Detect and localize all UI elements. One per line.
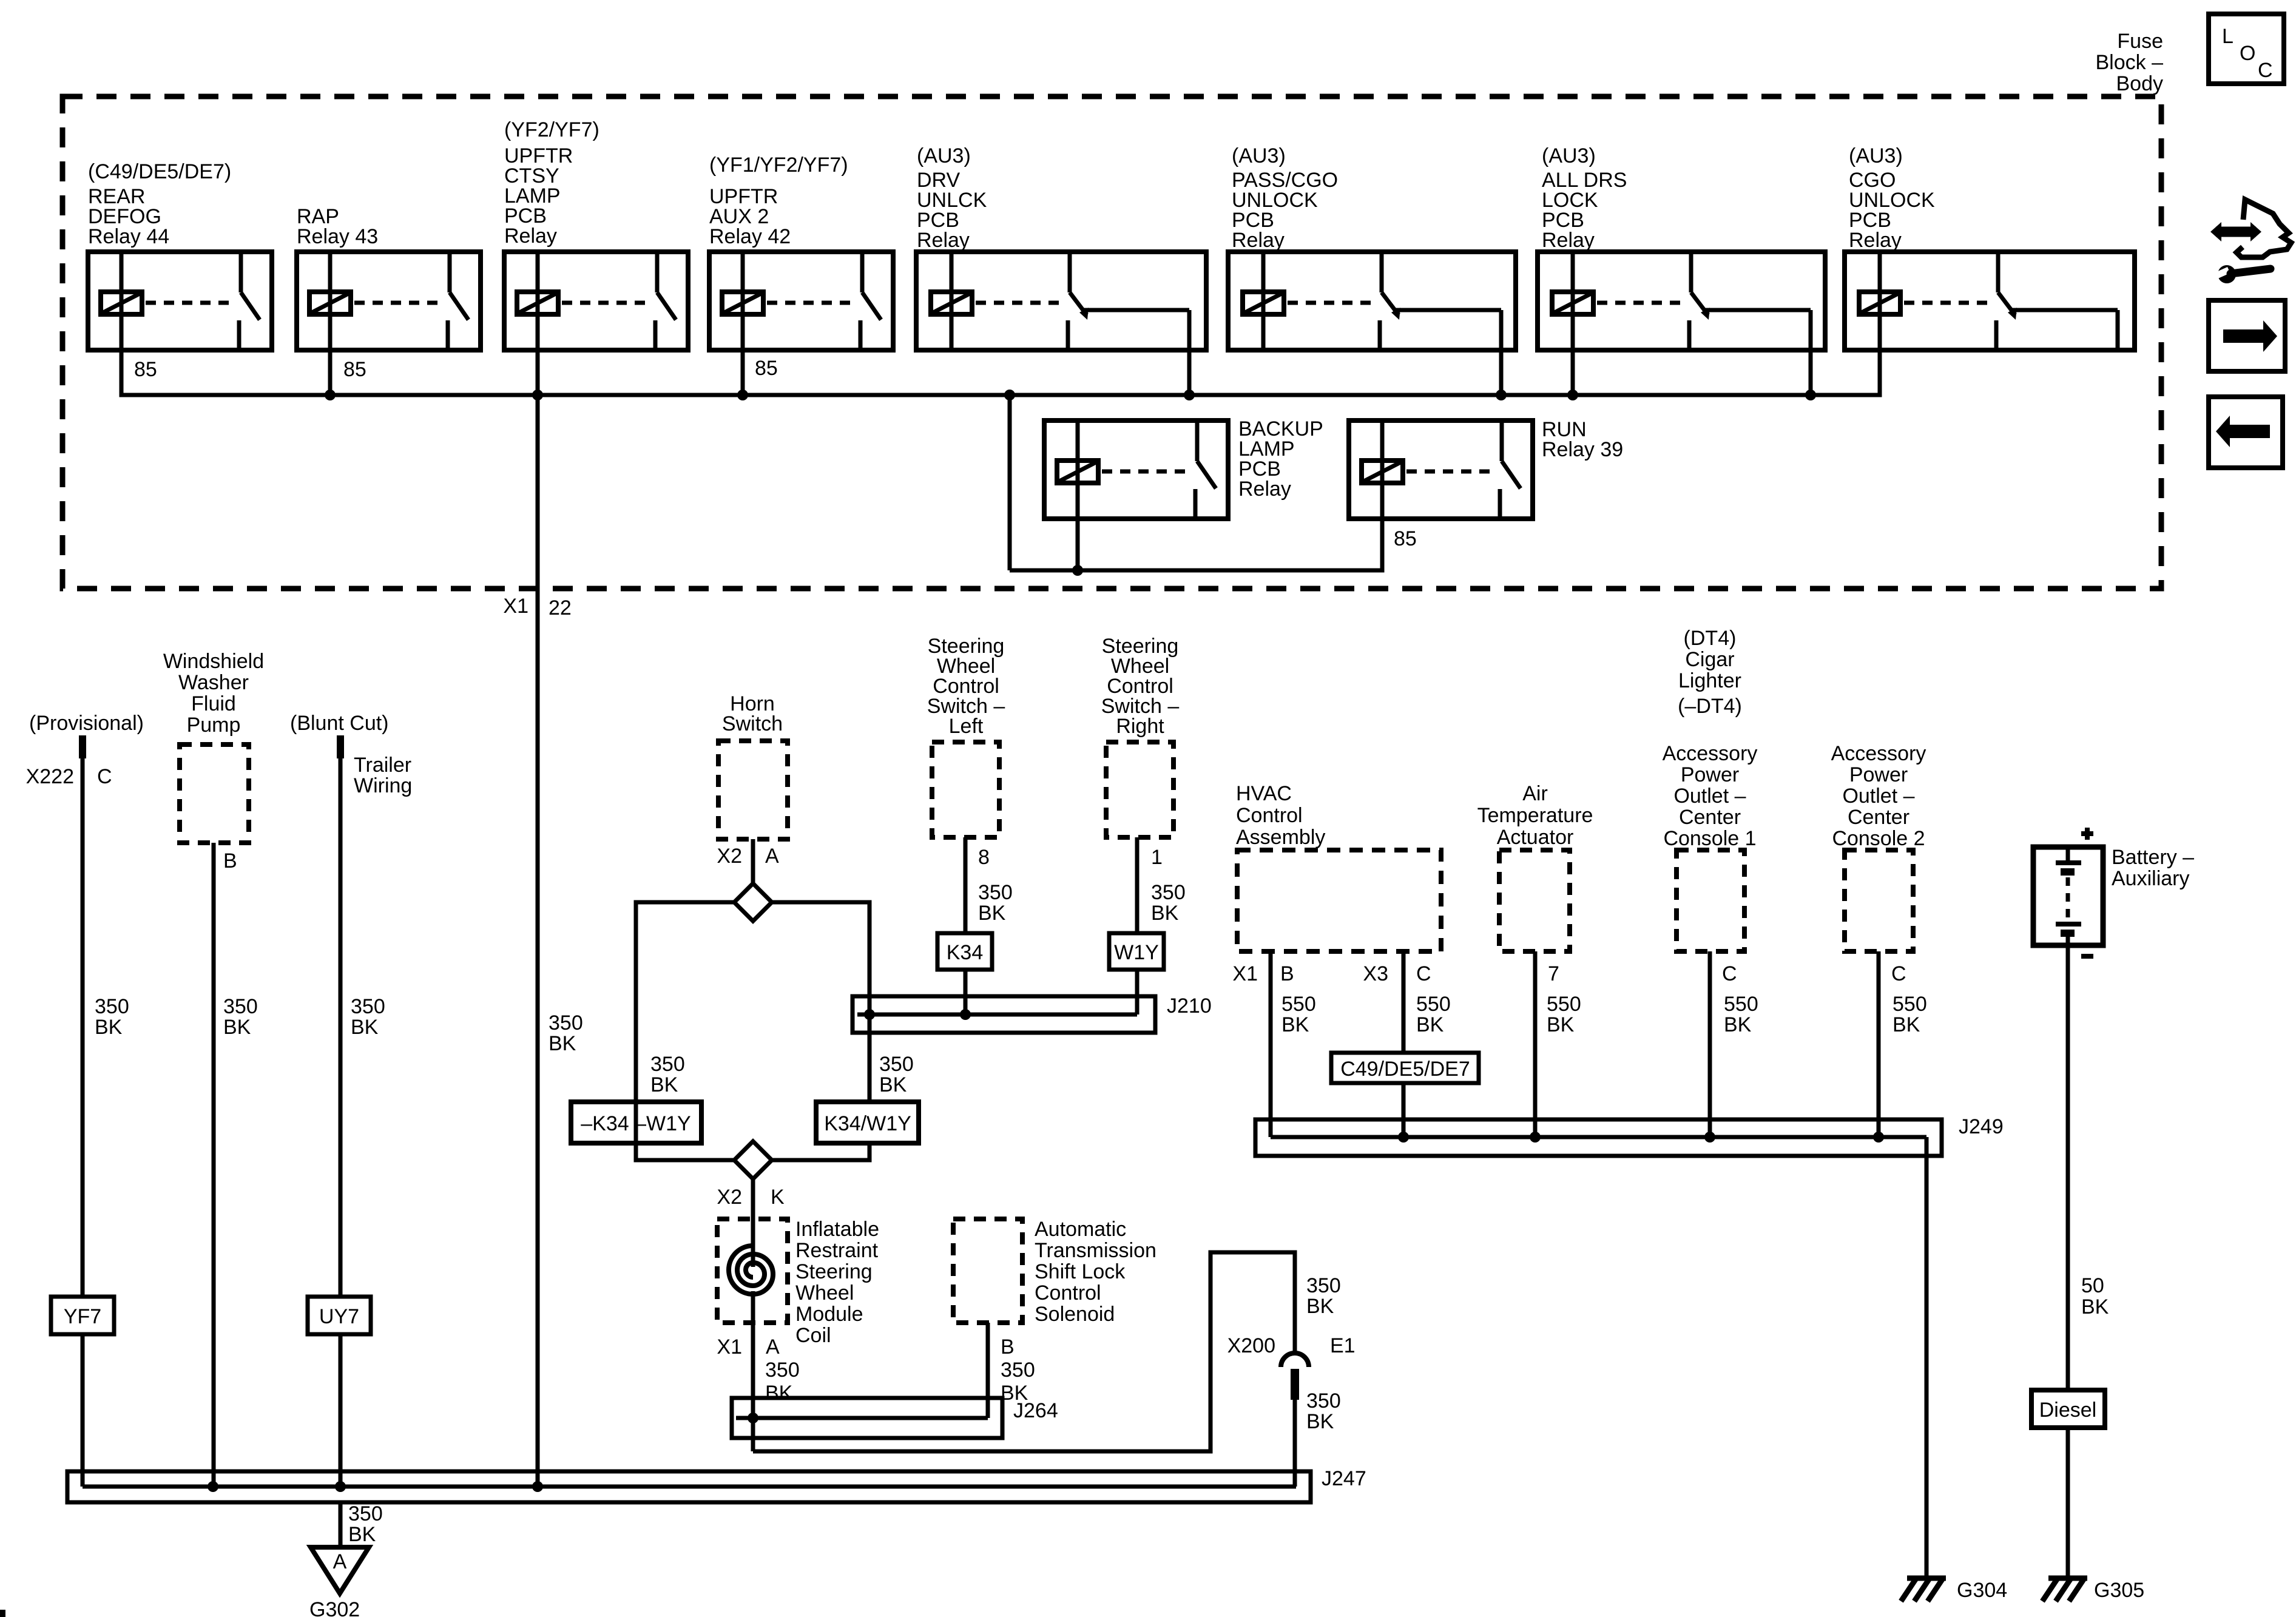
svg-text:350: 350 xyxy=(223,995,258,1018)
svg-text:Module: Module xyxy=(795,1303,863,1326)
svg-text:Accessory: Accessory xyxy=(1831,742,1926,765)
svg-text:–K34 –W1Y: –K34 –W1Y xyxy=(581,1112,690,1135)
svg-text:Washer: Washer xyxy=(178,671,249,694)
inflatable restraint module box (dashed) xyxy=(717,1219,788,1323)
wire actuator pin 7 to J249 xyxy=(1533,951,1538,1137)
svg-text:BK: BK xyxy=(1281,1013,1309,1036)
svg-text:Coil: Coil xyxy=(795,1324,831,1347)
wire label 350 BK (solenoid wire) xyxy=(1001,1359,1035,1405)
svg-text:Console 2: Console 2 xyxy=(1832,827,1925,850)
svg-text:350: 350 xyxy=(978,881,1013,904)
svg-text:Fluid: Fluid xyxy=(191,692,236,715)
svg-text:Power: Power xyxy=(1681,763,1739,786)
svg-text:Solenoid: Solenoid xyxy=(1035,1303,1115,1326)
svg-text:(C49/DE5/DE7): (C49/DE5/DE7) xyxy=(88,160,231,183)
svg-text:Windshield: Windshield xyxy=(163,650,264,673)
connector -K34 -W1Y box xyxy=(571,1102,701,1143)
svg-text:Right: Right xyxy=(1116,715,1164,738)
label air temperature actuator xyxy=(1477,782,1593,849)
svg-text:A: A xyxy=(333,1550,347,1573)
provisional wire stub xyxy=(79,735,86,758)
wire switch-right pin 1 to W1Y xyxy=(1135,837,1140,1014)
svg-text:C: C xyxy=(2258,59,2273,82)
svg-text:BK: BK xyxy=(879,1073,907,1096)
svg-text:Relay: Relay xyxy=(1238,478,1291,501)
svg-text:BK: BK xyxy=(1306,1410,1334,1433)
windshield washer fluid pump box (dashed) xyxy=(180,744,249,843)
svg-text:Relay 44: Relay 44 xyxy=(88,225,169,248)
svg-text:BK: BK xyxy=(1151,902,1179,925)
svg-text:550: 550 xyxy=(1893,993,1927,1016)
steering wheel switch left box (dashed) xyxy=(932,742,999,837)
wire backup/run 85 bus xyxy=(1010,518,1382,570)
power outlet console 2 box (dashed) xyxy=(1845,850,1913,951)
svg-text:G304: G304 xyxy=(1957,1579,2007,1602)
connector X2 pin A labels (horn) xyxy=(717,845,779,868)
svg-text:Accessory: Accessory xyxy=(1663,742,1758,765)
svg-text:Relay 42: Relay 42 xyxy=(709,225,791,248)
svg-text:G302: G302 xyxy=(309,1598,360,1617)
wire diamond left branch xyxy=(636,902,734,1160)
svg-text:BK: BK xyxy=(549,1032,576,1055)
svg-text:Relay: Relay xyxy=(1232,229,1285,252)
svg-text:Lighter: Lighter xyxy=(1678,669,1741,692)
pin C label outlet 1 xyxy=(1722,962,1737,985)
wire label 550 BK (actuator) xyxy=(1547,993,1581,1036)
relay PASS/CGO UNLOCK PCB (AU3) xyxy=(1228,144,1516,350)
pin 7 label xyxy=(1548,962,1559,985)
svg-text:85: 85 xyxy=(755,357,778,380)
label provisional xyxy=(29,712,144,735)
wire label 350 BK (X222 wire) xyxy=(95,995,129,1039)
prev-page arrow box xyxy=(2209,397,2283,468)
svg-text:7: 7 xyxy=(1548,962,1559,985)
relay ALL DRS LOCK PCB (AU3) xyxy=(1538,144,1825,350)
power outlet console 1 box (dashed) xyxy=(1676,850,1744,951)
svg-text:X222: X222 xyxy=(26,765,74,788)
svg-text:Outlet –: Outlet – xyxy=(1842,785,1914,808)
battery auxiliary symbol xyxy=(2033,847,2103,945)
svg-text:X2: X2 xyxy=(717,1186,742,1209)
pin C label outlet 2 xyxy=(1891,962,1906,985)
label blunt cut xyxy=(290,712,389,735)
wire relay ALL DRS coil to 85 bus xyxy=(1571,350,1575,395)
svg-text:Shift Lock: Shift Lock xyxy=(1035,1260,1126,1283)
wire label 350 BK (above -K34-W1Y) xyxy=(650,1053,685,1096)
svg-text:C: C xyxy=(1722,962,1737,985)
splice J210 bus bar xyxy=(853,996,1155,1033)
fuse block - body enclosure (dashed) xyxy=(62,96,2161,589)
relay CGO UNLOCK PCB (AU3) xyxy=(1845,144,2135,350)
wire label 350 BK (above X200) xyxy=(1306,1274,1341,1318)
svg-text:Battery –: Battery – xyxy=(2112,846,2194,869)
wire label 550 BK (hvac C) xyxy=(1416,993,1451,1036)
svg-text:Transmission: Transmission xyxy=(1035,1239,1156,1262)
svg-text:50: 50 xyxy=(2081,1274,2104,1297)
svg-text:BK: BK xyxy=(351,1016,379,1039)
svg-text:(Provisional): (Provisional) xyxy=(29,712,144,735)
relay 44 REAR DEFOG (C49/DE5/DE7) xyxy=(88,160,272,350)
svg-text:BK: BK xyxy=(2081,1295,2109,1318)
relay UPFTR CTSY LAMP PCB (YF2/YF7) xyxy=(504,118,688,350)
svg-text:350: 350 xyxy=(549,1011,583,1035)
svg-text:Auxiliary: Auxiliary xyxy=(2112,867,2189,890)
label J247 xyxy=(1322,1467,1366,1490)
svg-text:550: 550 xyxy=(1281,993,1316,1016)
svg-text:BK: BK xyxy=(348,1523,376,1546)
label cigar lighter (DT4) xyxy=(1678,627,1742,718)
svg-text:(Blunt Cut): (Blunt Cut) xyxy=(290,712,389,735)
svg-text:Outlet –: Outlet – xyxy=(1673,785,1746,808)
relay DRV UNLCK PCB (AU3) xyxy=(916,144,1206,350)
svg-text:C49/DE5/DE7: C49/DE5/DE7 xyxy=(1340,1058,1470,1081)
wire label 350 BK (module A wire) xyxy=(765,1359,800,1405)
label G305 xyxy=(2094,1579,2144,1602)
label fuse block - body xyxy=(2096,30,2164,95)
wire label 550 BK (hvac B) xyxy=(1281,993,1316,1036)
svg-text:L: L xyxy=(2222,25,2234,48)
svg-text:Center: Center xyxy=(1848,806,1909,829)
label steering wheel control switch - right xyxy=(1101,635,1180,738)
wire relay X1-22 to J247 xyxy=(536,350,540,1487)
label accessory power outlet center console 2 xyxy=(1831,742,1926,850)
svg-text:Wheel: Wheel xyxy=(795,1281,854,1305)
hvac control assembly box (dashed) xyxy=(1237,850,1441,951)
svg-text:(YF1/YF2/YF7): (YF1/YF2/YF7) xyxy=(709,154,848,177)
svg-text:BK: BK xyxy=(1893,1013,1920,1036)
svg-text:(AU3): (AU3) xyxy=(1232,144,1286,167)
pin B label washer pump xyxy=(223,849,237,873)
svg-text:BK: BK xyxy=(978,902,1006,925)
wire relay 43 coil to 85 bus xyxy=(328,350,333,395)
svg-text:BK: BK xyxy=(1547,1013,1575,1036)
svg-text:X1: X1 xyxy=(717,1335,742,1359)
splice J264 bus bar xyxy=(732,1398,1002,1438)
connector X1 pin B labels (hvac) xyxy=(1232,962,1294,985)
wire 85 bus xyxy=(121,350,1880,395)
svg-text:UY7: UY7 xyxy=(319,1305,359,1328)
wire relay DRV UNLCK output to 85 bus xyxy=(1187,350,1192,395)
wire label 550 BK (outlet 1) xyxy=(1724,993,1758,1036)
label horn switch xyxy=(722,692,783,735)
svg-text:Automatic: Automatic xyxy=(1035,1218,1126,1241)
svg-text:550: 550 xyxy=(1547,993,1581,1016)
wire label 350 BK (G302 wire) xyxy=(348,1502,383,1546)
svg-text:8: 8 xyxy=(978,846,990,869)
connector UY7 box xyxy=(308,1297,371,1334)
svg-text:85: 85 xyxy=(134,358,157,381)
wire module coil to J264 xyxy=(751,1291,755,1451)
svg-text:G305: G305 xyxy=(2094,1579,2144,1602)
wire relay 42 coil to 85 bus xyxy=(741,350,745,395)
svg-text:Trailer: Trailer xyxy=(354,754,411,777)
svg-text:W1Y: W1Y xyxy=(1114,941,1159,964)
svg-text:550: 550 xyxy=(1724,993,1758,1016)
pin 85 label relay 43 xyxy=(343,358,366,381)
ground G305 symbol xyxy=(2042,1578,2087,1601)
svg-text:Power: Power xyxy=(1849,763,1908,786)
svg-text:85: 85 xyxy=(1394,527,1417,550)
wire relay PASS/CGO output to 85 bus xyxy=(1499,350,1504,395)
svg-text:BK: BK xyxy=(765,1382,793,1405)
connector X200 E1 labels xyxy=(1227,1334,1356,1357)
svg-text:BK: BK xyxy=(223,1016,251,1039)
svg-text:350: 350 xyxy=(348,1502,383,1525)
svg-text:C: C xyxy=(1416,962,1431,985)
svg-text:C: C xyxy=(1891,962,1906,985)
svg-text:Restraint: Restraint xyxy=(795,1239,879,1262)
svg-text:BK: BK xyxy=(650,1073,678,1096)
svg-text:Relay: Relay xyxy=(917,229,970,252)
wire J249 to G304 xyxy=(1925,1137,1929,1578)
wire horn switch to splice diamond xyxy=(751,839,755,885)
svg-text:Body: Body xyxy=(2116,72,2164,95)
svg-text:85: 85 xyxy=(343,358,366,381)
connector X222 pin C labels xyxy=(26,765,112,788)
battery minus terminal mark xyxy=(2081,954,2093,959)
wrench icon xyxy=(2215,265,2271,283)
svg-text:K34: K34 xyxy=(947,941,984,964)
ground G304 symbol xyxy=(1901,1578,1946,1601)
wire lower diamond to steering module xyxy=(751,1179,755,1267)
svg-text:K: K xyxy=(771,1186,785,1209)
svg-text:350: 350 xyxy=(765,1359,800,1382)
svg-text:550: 550 xyxy=(1416,993,1451,1016)
wire label 550 BK (outlet 2) xyxy=(1893,993,1927,1036)
svg-text:BK: BK xyxy=(95,1016,123,1039)
label accessory power outlet center console 1 xyxy=(1663,742,1758,850)
label windshield washer fluid pump xyxy=(163,650,264,737)
wire X200 to J247 xyxy=(1293,1400,1297,1487)
svg-text:Center: Center xyxy=(1679,806,1741,829)
svg-text:BK: BK xyxy=(1416,1013,1444,1036)
shift lock solenoid box (dashed) xyxy=(953,1219,1022,1323)
svg-text:(–DT4): (–DT4) xyxy=(1678,695,1742,718)
connector X2 pin K labels xyxy=(717,1186,785,1209)
svg-text:BK: BK xyxy=(1724,1013,1752,1036)
battery plus terminal mark xyxy=(2081,828,2093,840)
label J264 xyxy=(1013,1399,1058,1422)
svg-text:Switch: Switch xyxy=(722,712,783,735)
svg-text:(YF2/YF7): (YF2/YF7) xyxy=(504,118,599,141)
wire hvac X1-B to J249 xyxy=(1269,951,1273,1137)
svg-text:E1: E1 xyxy=(1330,1334,1356,1357)
svg-text:A: A xyxy=(766,1335,780,1359)
svg-text:Relay: Relay xyxy=(504,224,557,248)
svg-text:350: 350 xyxy=(95,995,129,1018)
label automatic transmission shift lock control solenoid xyxy=(1035,1218,1156,1326)
wire J264 bypass to X200 xyxy=(753,1252,1295,1451)
connector X1 pin 22 labels xyxy=(503,595,571,619)
svg-text:350: 350 xyxy=(1306,1389,1341,1413)
wire outlet1 pin C to J249 xyxy=(1708,951,1712,1137)
hand with arrows icon xyxy=(2210,200,2291,257)
wire battery to diesel xyxy=(2066,945,2070,1390)
svg-text:B: B xyxy=(223,849,237,873)
svg-text:B: B xyxy=(1001,1335,1015,1359)
svg-text:X200: X200 xyxy=(1227,1334,1275,1357)
air temperature actuator box (dashed) xyxy=(1499,850,1570,951)
wire diamond right branch xyxy=(772,902,869,1160)
svg-text:X1: X1 xyxy=(1232,962,1258,985)
svg-text:350: 350 xyxy=(879,1053,914,1076)
label trailer wiring xyxy=(354,754,412,797)
svg-text:HVAC: HVAC xyxy=(1236,782,1292,805)
label hvac control assembly xyxy=(1236,782,1325,849)
connector X200 half circle xyxy=(1281,1353,1309,1400)
pin 85 label relay 42 xyxy=(755,357,778,380)
connector K34/W1Y box xyxy=(816,1102,919,1143)
svg-text:22: 22 xyxy=(549,596,572,619)
svg-text:Relay: Relay xyxy=(1849,229,1902,252)
svg-text:1: 1 xyxy=(1151,846,1163,869)
svg-text:Block –: Block – xyxy=(2096,51,2164,74)
label steering wheel control switch - left xyxy=(927,635,1005,738)
connector YF7 box xyxy=(51,1297,114,1334)
connector C49/DE5/DE7 box xyxy=(1331,1053,1479,1083)
wire diesel to G305 xyxy=(2066,1428,2070,1578)
svg-text:K34/W1Y: K34/W1Y xyxy=(824,1112,911,1135)
wire label 350 BK (trailer wire) xyxy=(351,995,385,1039)
relay 43 RAP xyxy=(297,205,481,350)
svg-text:Relay 43: Relay 43 xyxy=(297,225,378,248)
wire relay ALL DRS output to 85 bus xyxy=(1809,350,1813,395)
blunt cut wire stub xyxy=(337,735,344,758)
label J210 xyxy=(1167,994,1212,1018)
wire hvac X3-C to J249 xyxy=(1402,951,1406,1137)
svg-text:Left: Left xyxy=(949,715,984,738)
wire label 350 BK (switch right) xyxy=(1151,881,1186,925)
svg-text:Control: Control xyxy=(1035,1281,1101,1305)
svg-text:(AU3): (AU3) xyxy=(1542,144,1596,167)
svg-text:350: 350 xyxy=(351,995,385,1018)
svg-text:350: 350 xyxy=(1151,881,1186,904)
wire drop to backup/run bus xyxy=(1008,395,1012,570)
wire label 350 BK (below X200) xyxy=(1306,1389,1341,1433)
svg-text:(AU3): (AU3) xyxy=(917,144,971,167)
svg-text:350: 350 xyxy=(1001,1359,1035,1382)
svg-text:Diesel: Diesel xyxy=(2039,1399,2096,1422)
wire J247 to G302 xyxy=(339,1502,343,1547)
junction dot backup relay coil xyxy=(1072,565,1083,576)
wire label 350 BK (washer wire) xyxy=(223,995,258,1039)
horn switch box (dashed) xyxy=(718,741,788,839)
ground G302 triangle xyxy=(311,1547,369,1593)
connector W1Y box xyxy=(1109,933,1164,970)
pin 1 label xyxy=(1151,846,1163,869)
pin B label solenoid xyxy=(1001,1335,1015,1359)
svg-text:Temperature: Temperature xyxy=(1477,804,1593,827)
print artifact mark xyxy=(0,1610,5,1617)
splice diamond upper xyxy=(734,883,772,921)
svg-text:X2: X2 xyxy=(717,845,742,868)
wire backup relay coil drop xyxy=(1076,518,1080,570)
svg-text:Fuse: Fuse xyxy=(2117,30,2163,53)
wire label 50 BK (battery) xyxy=(2081,1274,2109,1318)
label G304 xyxy=(1957,1579,2007,1602)
steering wheel switch right box (dashed) xyxy=(1106,742,1173,837)
relay 39 RUN xyxy=(1349,418,1623,519)
wire trailer to J247 xyxy=(339,758,343,1487)
svg-text:Steering: Steering xyxy=(795,1260,873,1283)
svg-text:B: B xyxy=(1280,962,1294,985)
svg-text:Actuator: Actuator xyxy=(1497,826,1574,849)
label inflatable restraint steering wheel module coil xyxy=(795,1218,879,1347)
label G302 xyxy=(309,1598,360,1617)
svg-text:BK: BK xyxy=(1001,1382,1028,1405)
svg-text:Pump: Pump xyxy=(187,714,241,737)
svg-text:BK: BK xyxy=(1306,1295,1334,1318)
splice J247 bus bar xyxy=(67,1471,1311,1502)
svg-text:350: 350 xyxy=(1306,1274,1341,1297)
svg-text:Air: Air xyxy=(1522,782,1548,805)
wire switch-left pin 8 to K34 xyxy=(964,837,968,1014)
svg-text:J247: J247 xyxy=(1322,1467,1366,1490)
wire label 350 BK (above K34/W1Y) xyxy=(879,1053,914,1096)
label J249 xyxy=(1959,1115,2004,1138)
wire label 350 BK (X1-22 wire) xyxy=(549,1011,583,1055)
wire label 350 BK (switch left) xyxy=(978,881,1013,925)
pin 85 label run relay xyxy=(1394,527,1417,550)
connector X3 pin C labels (hvac) xyxy=(1363,962,1431,985)
next-page arrow box xyxy=(2209,300,2285,371)
connector K34 box xyxy=(937,933,992,970)
splice J249 bus bar xyxy=(1255,1119,1942,1156)
relay 42 UPFTR AUX 2 (YF1/YF2/YF7) xyxy=(709,154,893,350)
splice diamond lower xyxy=(734,1141,772,1179)
label battery - auxiliary xyxy=(2112,846,2194,890)
svg-text:J249: J249 xyxy=(1959,1115,2004,1138)
connector Diesel box xyxy=(2031,1390,2105,1428)
svg-text:O: O xyxy=(2240,42,2255,65)
relay BACKUP LAMP PCB xyxy=(1044,417,1323,519)
svg-text:X3: X3 xyxy=(1363,962,1388,985)
svg-text:Relay: Relay xyxy=(1542,229,1595,252)
svg-text:(AU3): (AU3) xyxy=(1849,144,1903,167)
svg-text:A: A xyxy=(765,845,779,868)
svg-text:Assembly: Assembly xyxy=(1236,826,1325,849)
svg-text:Inflatable: Inflatable xyxy=(795,1218,879,1241)
pin 8 label xyxy=(978,846,990,869)
wire outlet2 pin C to J249 xyxy=(1877,951,1881,1137)
connector X1 pin A labels (module) xyxy=(717,1335,780,1359)
wire solenoid pin B to J264 xyxy=(986,1323,990,1418)
svg-text:(DT4): (DT4) xyxy=(1684,627,1737,650)
svg-text:C: C xyxy=(97,765,112,788)
wire X222 to J247 xyxy=(81,758,85,1487)
svg-text:X1: X1 xyxy=(503,595,528,618)
clockspring coil spiral xyxy=(729,1246,773,1294)
wire washer pump to J247 xyxy=(212,843,216,1487)
svg-text:Relay 39: Relay 39 xyxy=(1542,438,1623,461)
svg-text:Wiring: Wiring xyxy=(354,774,412,797)
svg-text:350: 350 xyxy=(650,1053,685,1076)
svg-text:Console 1: Console 1 xyxy=(1663,827,1756,850)
svg-text:Cigar: Cigar xyxy=(1685,648,1734,671)
junction dots on 85 bus xyxy=(325,390,1816,400)
svg-text:J210: J210 xyxy=(1167,994,1212,1018)
svg-text:YF7: YF7 xyxy=(64,1305,101,1328)
LOC legend box xyxy=(2209,14,2284,84)
pin 85 label relay 44 xyxy=(134,358,157,381)
svg-text:Control: Control xyxy=(1236,804,1303,827)
